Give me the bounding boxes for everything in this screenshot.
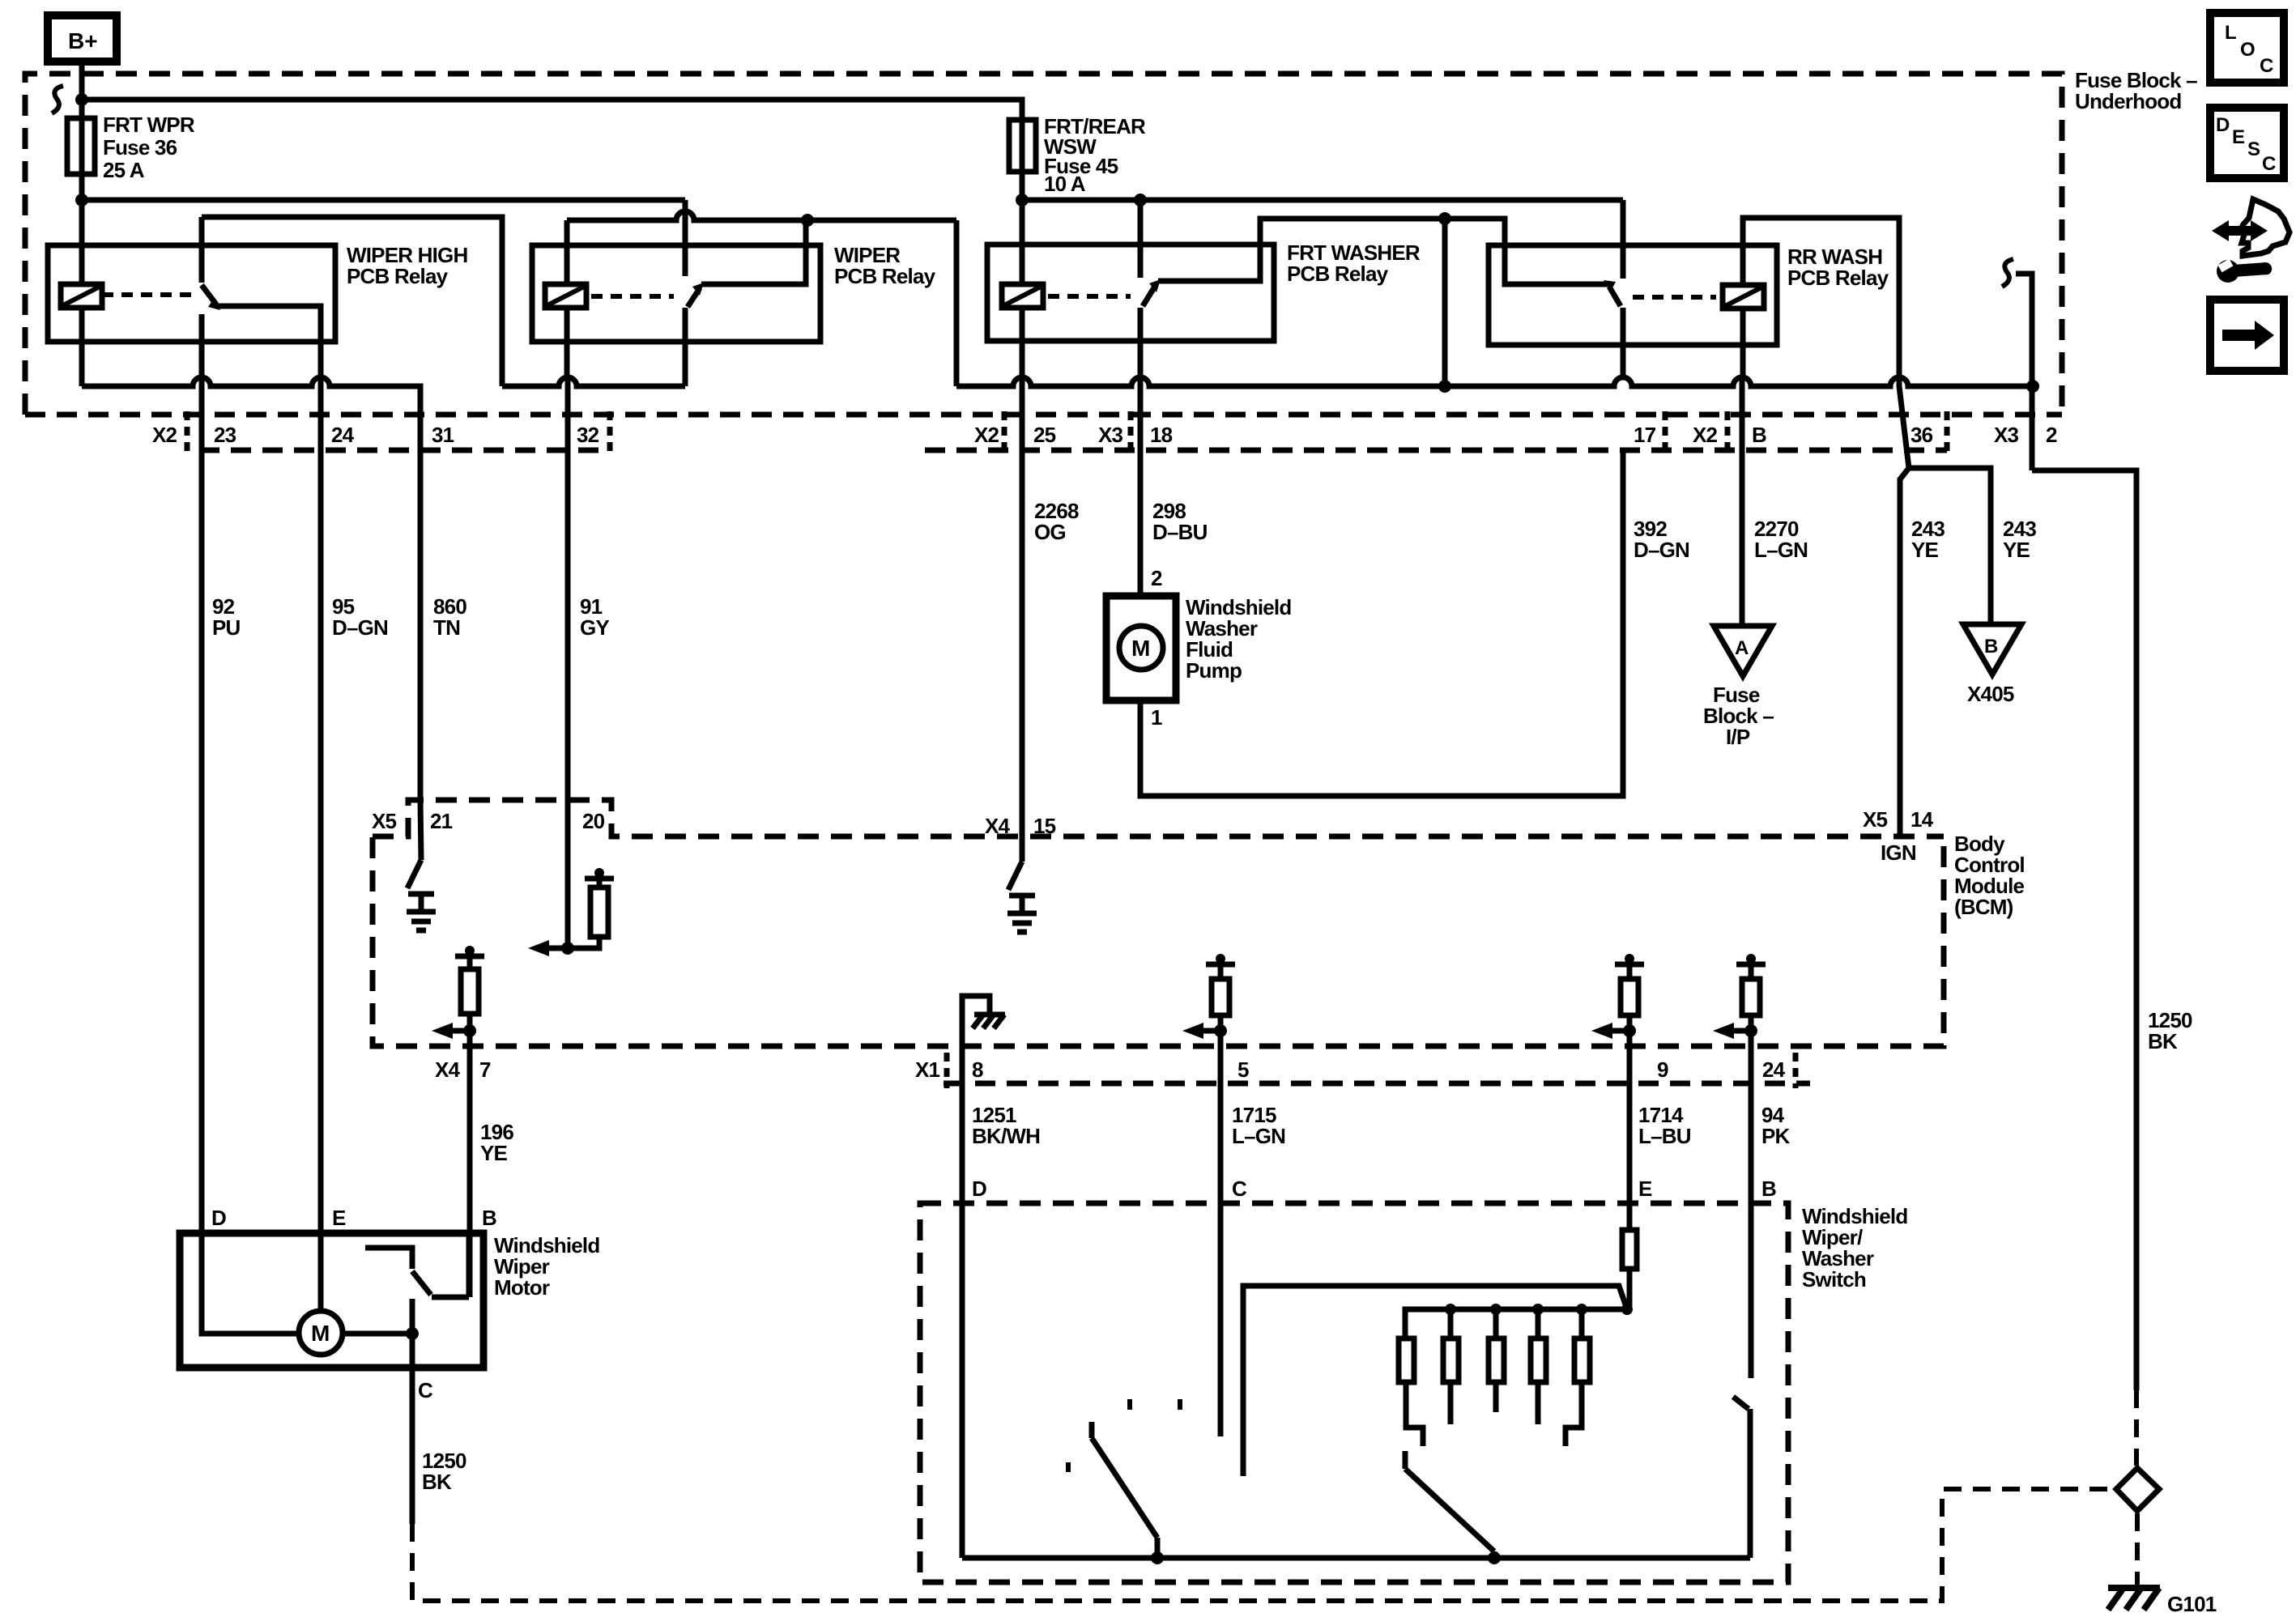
switch resistor R3 — [1489, 1309, 1504, 1412]
BCM 24 separator — [1793, 1053, 1799, 1088]
relay K2 coil-armature dashed link — [591, 294, 674, 299]
svg-text:24: 24 — [331, 423, 355, 447]
svg-text:B: B — [1984, 636, 1998, 657]
connector separator after 32 — [607, 411, 613, 452]
svg-text:L–GN: L–GN — [1754, 538, 1808, 562]
relay K4 switch — [1445, 200, 1623, 377]
svg-text:I/P: I/P — [1726, 725, 1750, 749]
switch resistor R1 — [1399, 1338, 1423, 1446]
svg-text:D: D — [2216, 114, 2230, 136]
wire 860 TN pin31 to BCM X5-21 — [418, 386, 424, 800]
windshield wiper/washer switch dashed box — [920, 1203, 1907, 1582]
svg-text:IGN: IGN — [1881, 840, 1916, 865]
svg-text:23: 23 — [214, 423, 236, 447]
relay K1 coil — [61, 284, 102, 308]
svg-text:X5: X5 — [372, 809, 397, 833]
connector separator after 36 — [1945, 411, 1950, 452]
switch washer contact blade — [1733, 1397, 1750, 1558]
svg-text:X3: X3 — [1098, 423, 1123, 447]
windshield washer fluid pump — [1106, 595, 1291, 700]
relay K3 FRT WASHER PCB Relay inner box — [987, 240, 1421, 341]
hook symbol on B+ feed — [52, 86, 63, 113]
wire line B riser to bus — [954, 220, 960, 386]
svg-text:TN: TN — [433, 615, 460, 640]
wire 392 D-GN label — [1634, 517, 1689, 562]
LOC icon box — [2210, 13, 2284, 83]
svg-text:Underhood: Underhood — [2075, 89, 2181, 113]
switch mode position marks — [1066, 1462, 1071, 1472]
svg-text:17: 17 — [1634, 423, 1656, 447]
fuse block underhood dashed border — [25, 74, 2062, 415]
B+ battery feed box — [48, 15, 117, 62]
svg-text:X2: X2 — [152, 423, 177, 447]
bus fuse block bottom right segment — [956, 377, 2033, 386]
svg-text:C: C — [418, 1378, 433, 1402]
svg-text:14: 14 — [1910, 807, 1934, 832]
svg-text:PCB Relay: PCB Relay — [347, 264, 449, 288]
switch resistor R2 — [1443, 1309, 1459, 1424]
svg-text:GY: GY — [580, 615, 609, 640]
wire fuse45 output bus — [1022, 198, 1623, 203]
switch low-speed node bus — [1243, 1286, 1627, 1476]
BCM pin21 ground switch — [407, 800, 436, 930]
relay K1 coil-armature dashed link — [102, 292, 194, 297]
BCM pin9 output driver — [1591, 954, 1644, 1046]
wire X3-2 1250 BK to splice — [2032, 470, 2192, 1390]
connector row lower dashed line left group — [199, 448, 607, 453]
wire 196 YE BCM X4-7 to motor B — [467, 1046, 473, 1297]
fuse FRT/REAR WSW Fuse 45 — [1009, 114, 1146, 196]
relay K2 coil wires — [564, 220, 570, 284]
svg-text:7: 7 — [479, 1057, 491, 1082]
wire 1251 BK/WH BCM X1-8 to switch D — [960, 1046, 965, 1558]
switch resistor ladder top bus — [1405, 1309, 1627, 1338]
svg-text:E: E — [2232, 126, 2245, 148]
wire 243 YE label left — [1911, 517, 1945, 562]
bus fuse block bottom middle segment — [502, 377, 685, 386]
svg-text:L–GN: L–GN — [1232, 1124, 1285, 1148]
motor park switch — [365, 1233, 469, 1297]
relay K3 coil — [1002, 284, 1043, 308]
BCM bottom connector row second dashed line — [944, 1081, 1810, 1087]
connector pin labels row — [152, 423, 2057, 447]
BCM bottom pin labels — [435, 1057, 1786, 1082]
motor common junction — [343, 1331, 412, 1337]
svg-text:8: 8 — [972, 1057, 983, 1082]
svg-text:C: C — [2262, 153, 2276, 175]
svg-text:M: M — [311, 1321, 330, 1346]
svg-text:25: 25 — [1033, 423, 1056, 447]
BCM pin24 output driver — [1713, 954, 1766, 1046]
svg-text:E: E — [1638, 1177, 1652, 1201]
svg-text:L: L — [2225, 22, 2237, 44]
svg-text:20: 20 — [582, 809, 605, 833]
node K3/K4 output junction — [1438, 212, 1451, 225]
splice diamond — [2116, 1468, 2159, 1511]
svg-text:A: A — [1735, 637, 1749, 659]
relay K1 switch — [202, 217, 321, 386]
relay K4 coil — [1723, 285, 1764, 309]
svg-text:18: 18 — [1150, 423, 1173, 447]
connector separator X2|25 — [1002, 411, 1007, 452]
motor D internal wire — [202, 1233, 299, 1334]
svg-text:E: E — [332, 1206, 346, 1230]
svg-text:BK: BK — [422, 1470, 452, 1494]
svg-text:C: C — [1232, 1177, 1247, 1201]
svg-text:X2: X2 — [1693, 423, 1718, 447]
BCM pin15 ground switch — [1007, 837, 1037, 932]
relay K4 RR WASH PCB Relay inner box — [1489, 245, 1889, 345]
relay K3 coil wires — [1020, 308, 1025, 377]
wire line B relay K2 energize net — [567, 211, 956, 220]
wire 243 YE pin36 branch — [1899, 377, 1991, 624]
svg-text:36: 36 — [1910, 423, 1933, 447]
bus fuse block bottom left segment — [82, 377, 420, 415]
svg-text:PK: PK — [1761, 1124, 1791, 1148]
svg-text:G101: G101 — [2167, 1592, 2217, 1616]
switch E input resistor — [1622, 1230, 1637, 1309]
relay K3 coil-armature dashed link — [1048, 294, 1131, 299]
fuse FRT WPR Fuse 36 — [67, 113, 195, 182]
connector separator X2|23 — [185, 411, 190, 452]
svg-text:32: 32 — [577, 423, 599, 447]
svg-text:B: B — [1761, 1177, 1776, 1201]
BCM pin5 output driver — [1182, 954, 1235, 1046]
wire 95 D-GN pin24 to motor E — [318, 386, 324, 1233]
svg-text:D: D — [211, 1206, 226, 1230]
connector separator after 17 — [1663, 411, 1668, 452]
wire feed to fuse 45 — [82, 100, 1022, 284]
svg-text:BK/WH: BK/WH — [972, 1124, 1040, 1148]
connector row lower dashed line right group — [925, 448, 1947, 453]
svg-text:25 A: 25 A — [103, 158, 145, 182]
svg-text:S: S — [2247, 138, 2260, 160]
wire 91 GY pin32 to BCM X5-20 — [565, 377, 571, 800]
BCM pin X4-7 output driver — [432, 946, 484, 1046]
wire 243 YE label right — [2003, 517, 2036, 562]
triangle connector B — [1963, 624, 2021, 706]
relay K4 outer frame — [1743, 218, 1899, 377]
wire fuse36 output bus — [82, 198, 685, 203]
wire K1 common to K2 — [202, 217, 502, 386]
svg-text:1: 1 — [1151, 705, 1162, 730]
wire X3-2 from hook to bus — [2016, 274, 2032, 470]
BCM X1 separator — [944, 1053, 950, 1088]
switch mode selector blade — [1092, 1422, 1157, 1558]
wire 2268 OG pin25 to BCM X4-15 — [1020, 377, 1025, 837]
switch resistor R4 — [1531, 1309, 1546, 1424]
svg-text:PCB Relay: PCB Relay — [1287, 262, 1389, 286]
dashed wire into splice diamond — [2134, 1390, 2139, 1466]
relay K2 switch — [685, 200, 806, 386]
svg-text:FRT WPR: FRT WPR — [103, 113, 195, 137]
switch resistor R5 — [1565, 1309, 1590, 1446]
svg-text:B+: B+ — [68, 28, 98, 53]
relay K3 switch — [1140, 200, 1445, 377]
svg-text:D: D — [972, 1177, 986, 1201]
svg-text:YE: YE — [2003, 538, 2030, 562]
wire 92 PU pin23 to motor D — [199, 386, 205, 1233]
connector separator X3|18 — [1128, 411, 1134, 452]
svg-text:PCB Relay: PCB Relay — [834, 264, 936, 288]
svg-text:Motor: Motor — [494, 1275, 550, 1300]
svg-text:OG: OG — [1034, 520, 1066, 544]
svg-text:X4: X4 — [985, 814, 1011, 838]
relay K1 WIPER HIGH PCB Relay box — [48, 243, 467, 342]
relay K1 coil wire — [79, 308, 85, 386]
svg-text:B: B — [482, 1206, 496, 1230]
forward arrow icon box — [2210, 300, 2284, 371]
svg-text:31: 31 — [432, 423, 454, 447]
relay K2 WIPER PCB Relay box — [532, 243, 936, 342]
svg-text:X2: X2 — [974, 423, 999, 447]
svg-text:Pump: Pump — [1186, 658, 1242, 683]
svg-text:2: 2 — [1151, 566, 1162, 590]
svg-text:X5: X5 — [1863, 807, 1888, 832]
svg-text:X4: X4 — [435, 1057, 461, 1082]
wire 1250 BK motor C ground path — [422, 1449, 466, 1494]
wire 1714 L-BU BCM 9 to switch E — [1627, 1046, 1633, 1230]
svg-text:Fuse 36: Fuse 36 — [103, 135, 177, 160]
svg-text:YE: YE — [1911, 538, 1939, 562]
svg-text:BK: BK — [2148, 1029, 2178, 1053]
svg-text:D–BU: D–BU — [1152, 520, 1208, 544]
dashed wire splice to G101 — [2135, 1513, 2140, 1585]
switch pin letters — [972, 1177, 1776, 1201]
wire 2270 L-GN pin B to fuse block IP — [1740, 377, 1745, 626]
relay K2 coil — [545, 284, 586, 308]
svg-text:9: 9 — [1657, 1057, 1668, 1082]
motor E internal wire — [318, 1233, 324, 1311]
relay K4 coil-armature dashed link — [1633, 295, 1716, 300]
wire pump return to pin17 — [1140, 450, 1623, 796]
connector row upper dashed line — [25, 412, 2062, 418]
svg-text:B: B — [1752, 423, 1766, 447]
BCM top pin labels — [372, 807, 1934, 865]
svg-text:21: 21 — [430, 809, 453, 833]
BCM body control module dashed box — [373, 800, 2025, 1046]
svg-text:D–GN: D–GN — [1634, 538, 1689, 562]
hook symbol on X3-2 wire — [2002, 259, 2013, 287]
dashed splice wire from motor C — [412, 1489, 2114, 1601]
svg-text:PCB Relay: PCB Relay — [1787, 266, 1889, 290]
wire K3/K4 output riser to bus — [1442, 219, 1448, 386]
wire 94 PK BCM 24 to switch B — [1749, 1046, 1754, 1378]
svg-text:(BCM): (BCM) — [1954, 895, 2013, 919]
svg-text:D–GN: D–GN — [332, 615, 388, 640]
ground G101 — [2108, 1588, 2217, 1616]
svg-text:PU: PU — [212, 615, 241, 640]
svg-text:M: M — [1131, 636, 1150, 661]
svg-text:X3: X3 — [1994, 423, 2019, 447]
node at B+ feed split — [75, 93, 88, 106]
switch D wire to common bus — [962, 1555, 1750, 1561]
harness connector-with-wrench icon — [2212, 199, 2290, 283]
svg-text:24: 24 — [1762, 1057, 1786, 1082]
svg-text:L–BU: L–BU — [1638, 1124, 1691, 1148]
triangle connector A — [1703, 626, 1774, 749]
Fuse Block - Underhood label — [2075, 68, 2197, 113]
svg-text:5: 5 — [1237, 1057, 1249, 1082]
svg-text:Switch: Switch — [1802, 1267, 1866, 1291]
wiper motor M — [299, 1311, 343, 1355]
svg-text:O: O — [2240, 39, 2256, 61]
wire 298 D-BU pin18 to washer pump — [1138, 377, 1144, 596]
wire 1715 L-GN BCM 5 to switch C — [1218, 1046, 1224, 1436]
svg-text:X405: X405 — [1967, 682, 2014, 706]
svg-text:15: 15 — [1033, 814, 1056, 838]
BCM pin X1-8 internal ground — [962, 996, 1005, 1046]
relay K4 coil bottom wire — [1740, 309, 1746, 377]
svg-text:2: 2 — [2046, 423, 2057, 447]
svg-text:X1: X1 — [915, 1057, 940, 1082]
connector separator X2|B — [1725, 411, 1731, 452]
svg-text:10 A: 10 A — [1044, 172, 1086, 196]
svg-text:C: C — [2260, 55, 2273, 77]
wire B+ down to fuse 36 — [79, 62, 85, 284]
motor pin letters — [211, 1206, 496, 1402]
DESC icon box — [2210, 108, 2284, 178]
switch delay selector blade — [1405, 1451, 1494, 1558]
svg-text:YE: YE — [480, 1141, 508, 1165]
windshield wiper motor box — [180, 1233, 599, 1368]
BCM pin20 pull-up resistor — [528, 800, 614, 956]
